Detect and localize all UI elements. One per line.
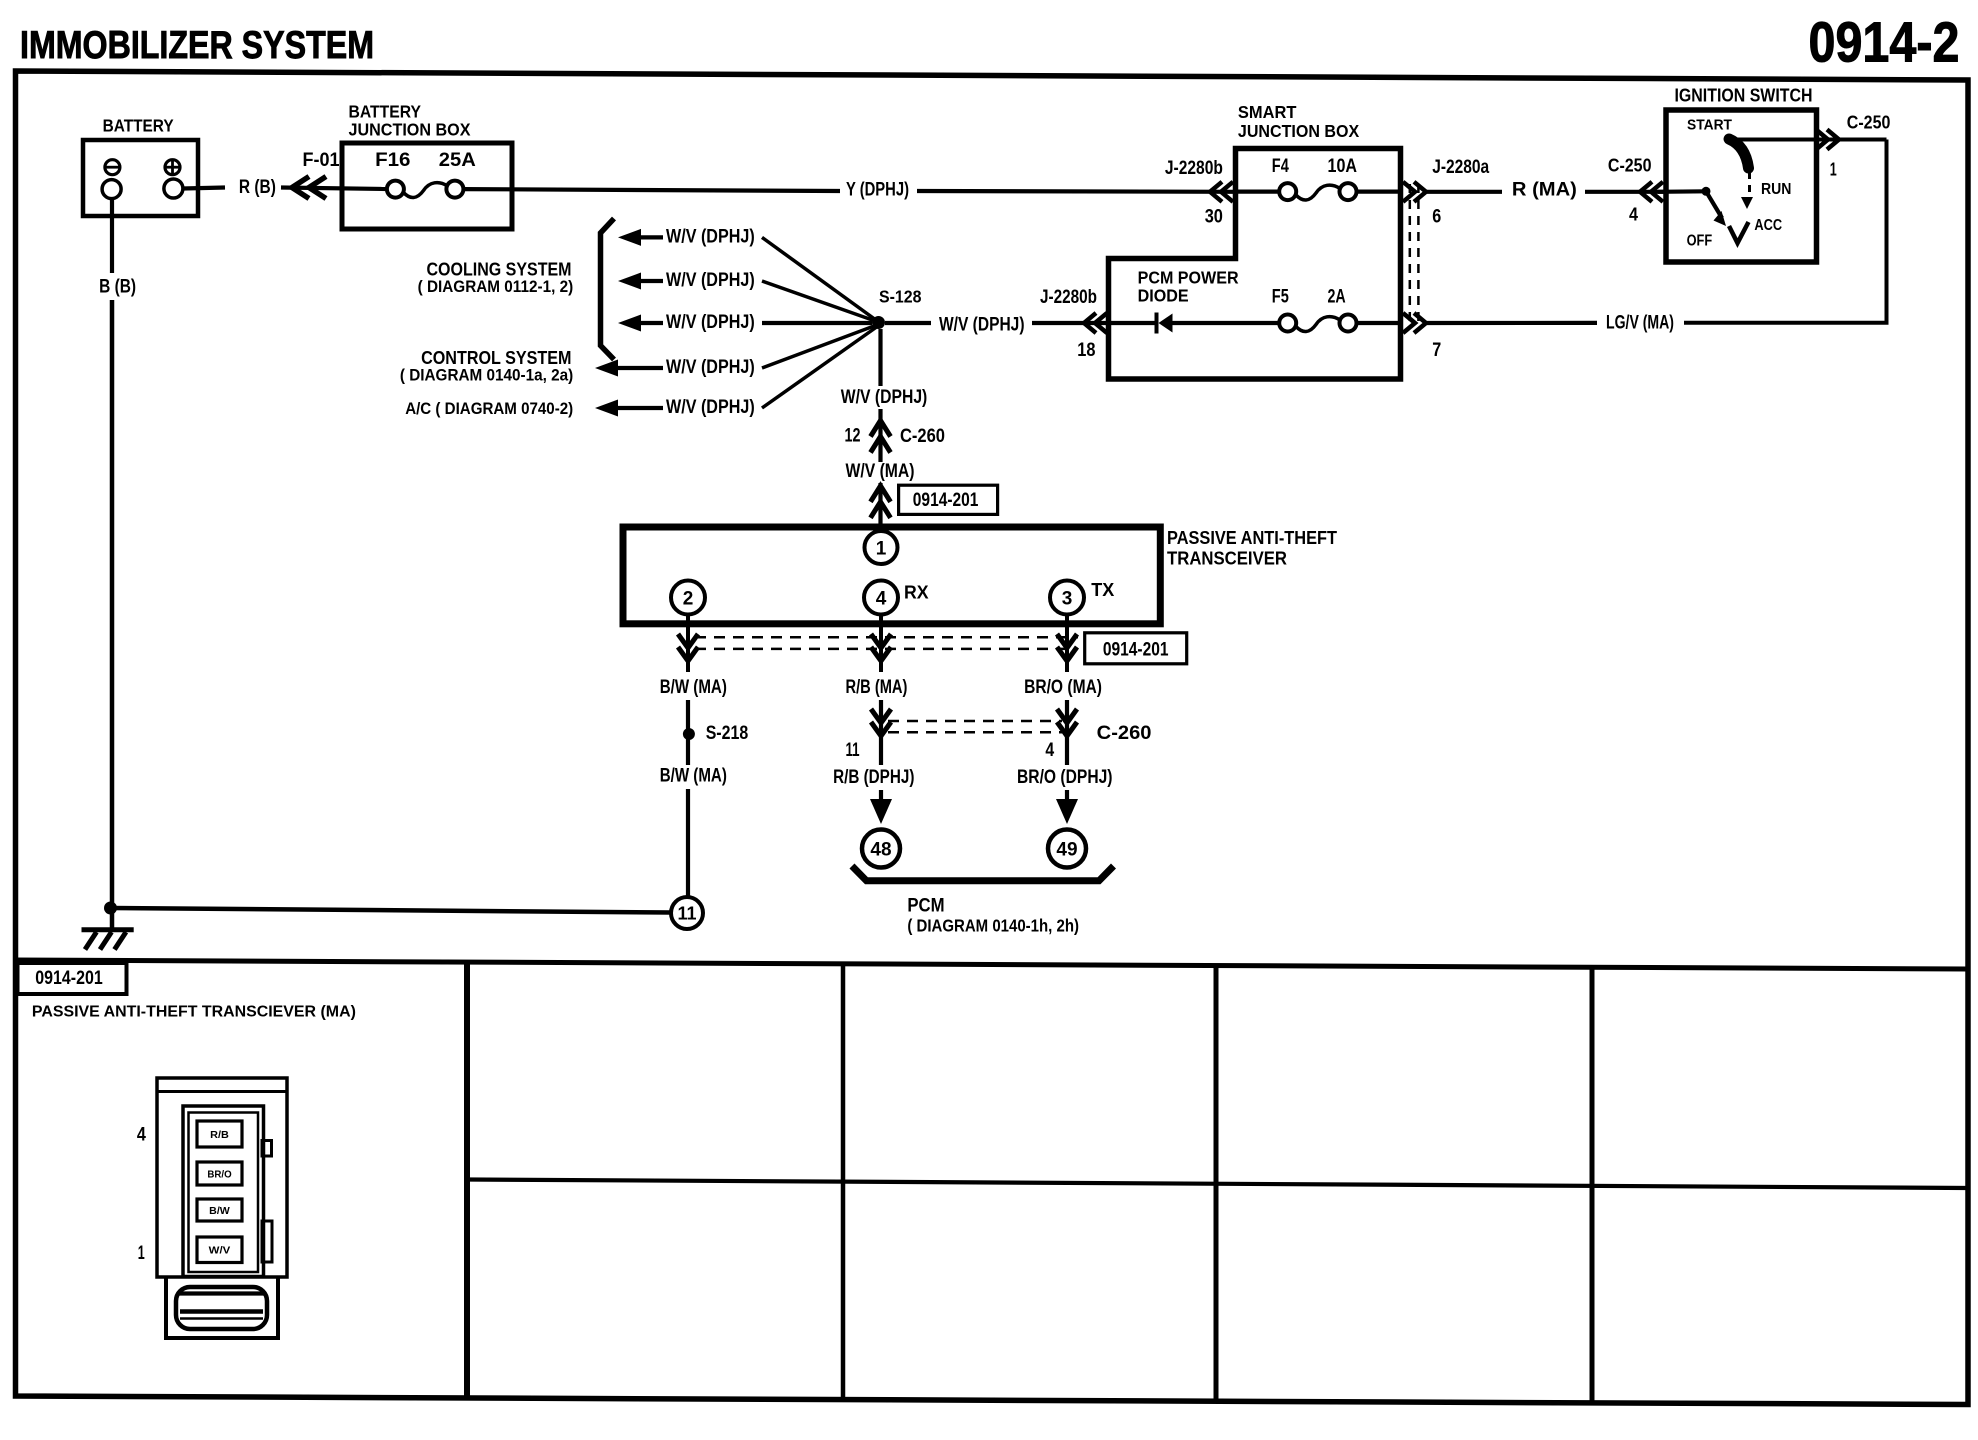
svg-text:4: 4 [1629, 205, 1638, 225]
svg-text:LG/V (MA): LG/V (MA) [1606, 313, 1674, 334]
svg-text:Y (DPHJ): Y (DPHJ) [846, 180, 909, 201]
svg-text:( DIAGRAM 0140-1h, 2h): ( DIAGRAM 0140-1h, 2h) [907, 916, 1079, 936]
svg-text:S-128: S-128 [879, 287, 922, 307]
svg-text:4: 4 [876, 589, 887, 610]
svg-text:R/B: R/B [210, 1129, 229, 1141]
svg-text:BR/O (DPHJ): BR/O (DPHJ) [1017, 767, 1113, 788]
svg-text:R/B (MA): R/B (MA) [846, 677, 908, 698]
svg-text:IGNITION SWITCH: IGNITION SWITCH [1675, 86, 1813, 106]
svg-text:W/V: W/V [209, 1245, 231, 1257]
svg-text:W/V (DPHJ): W/V (DPHJ) [666, 357, 755, 378]
svg-text:W/V (DPHJ): W/V (DPHJ) [666, 397, 755, 418]
svg-text:49: 49 [1056, 840, 1077, 861]
svg-text:TRANSCEIVER: TRANSCEIVER [1167, 549, 1287, 569]
svg-text:BATTERY: BATTERY [349, 102, 422, 122]
svg-text:F16: F16 [375, 150, 410, 171]
svg-text:1: 1 [138, 1243, 145, 1264]
svg-text:48: 48 [870, 840, 891, 861]
svg-text:3: 3 [1062, 589, 1073, 610]
svg-text:0914-2: 0914-2 [1809, 11, 1960, 75]
svg-text:6: 6 [1432, 207, 1441, 228]
svg-text:J-2280b: J-2280b [1040, 287, 1097, 308]
svg-text:RUN: RUN [1761, 181, 1791, 198]
svg-text:1: 1 [876, 539, 887, 560]
svg-text:JUNCTION BOX: JUNCTION BOX [349, 120, 471, 140]
svg-text:BATTERY: BATTERY [103, 116, 174, 136]
svg-text:A/C ( DIAGRAM 0740-2): A/C ( DIAGRAM 0740-2) [405, 399, 573, 418]
svg-text:W/V (DPHJ): W/V (DPHJ) [666, 312, 755, 333]
svg-text:S-218: S-218 [706, 723, 749, 744]
svg-text:R (B): R (B) [239, 177, 276, 198]
svg-text:PASSIVE ANTI-THEFT TRANSCIEVER: PASSIVE ANTI-THEFT TRANSCIEVER (MA) [32, 1004, 356, 1021]
svg-text:12: 12 [845, 426, 861, 447]
svg-text:0914-201: 0914-201 [913, 490, 979, 511]
svg-text:ACC: ACC [1754, 217, 1782, 234]
svg-text:B/W: B/W [209, 1205, 230, 1217]
svg-text:J-2280a: J-2280a [1432, 157, 1489, 178]
svg-text:TX: TX [1091, 579, 1115, 600]
svg-text:SMART: SMART [1238, 102, 1297, 122]
svg-text:PASSIVE ANTI-THEFT: PASSIVE ANTI-THEFT [1167, 528, 1337, 548]
svg-text:1: 1 [1830, 160, 1837, 180]
svg-text:BR/O: BR/O [207, 1169, 231, 1181]
svg-text:11: 11 [677, 904, 696, 924]
svg-text:4: 4 [137, 1125, 146, 1146]
svg-text:R (MA): R (MA) [1512, 180, 1577, 201]
svg-text:W/V (DPHJ): W/V (DPHJ) [666, 270, 755, 291]
svg-text:25A: 25A [439, 150, 476, 171]
svg-text:F-01: F-01 [303, 150, 340, 171]
svg-text:START: START [1687, 118, 1732, 134]
svg-text:0914-201: 0914-201 [35, 968, 103, 989]
svg-text:B (B): B (B) [99, 277, 136, 298]
svg-text:W/V (DPHJ): W/V (DPHJ) [841, 387, 928, 408]
svg-text:W/V (DPHJ): W/V (DPHJ) [666, 226, 755, 247]
svg-text:C-260: C-260 [900, 426, 945, 447]
svg-text:IMMOBILIZER SYSTEM: IMMOBILIZER SYSTEM [20, 24, 374, 67]
svg-text:( DIAGRAM 0140-1a, 2a): ( DIAGRAM 0140-1a, 2a) [400, 366, 573, 385]
svg-text:F5: F5 [1272, 287, 1289, 308]
svg-text:B/W (MA): B/W (MA) [660, 677, 727, 698]
svg-text:10A: 10A [1328, 156, 1358, 177]
svg-text:18: 18 [1077, 340, 1095, 361]
svg-text:J-2280b: J-2280b [1165, 158, 1223, 179]
svg-text:RX: RX [904, 582, 929, 603]
svg-text:4: 4 [1045, 740, 1054, 761]
svg-text:PCM POWER: PCM POWER [1138, 267, 1239, 287]
svg-text:W/V (MA): W/V (MA) [846, 461, 915, 482]
svg-text:0914-201: 0914-201 [1103, 640, 1169, 661]
svg-text:C-250: C-250 [1847, 113, 1891, 133]
svg-text:30: 30 [1205, 207, 1223, 228]
svg-text:JUNCTION BOX: JUNCTION BOX [1238, 121, 1360, 141]
svg-text:( DIAGRAM 0112-1, 2): ( DIAGRAM 0112-1, 2) [418, 277, 574, 296]
svg-text:2: 2 [683, 589, 694, 610]
svg-text:11: 11 [846, 740, 860, 761]
svg-text:DIODE: DIODE [1138, 286, 1189, 306]
svg-text:R/B (DPHJ): R/B (DPHJ) [833, 767, 914, 788]
svg-text:7: 7 [1432, 340, 1441, 361]
svg-text:F4: F4 [1272, 156, 1289, 177]
svg-text:W/V (DPHJ): W/V (DPHJ) [939, 315, 1025, 336]
svg-text:2A: 2A [1328, 287, 1346, 308]
svg-text:C-250: C-250 [1608, 156, 1652, 176]
svg-text:OFF: OFF [1687, 233, 1713, 250]
svg-text:PCM: PCM [907, 896, 944, 917]
svg-text:B/W (MA): B/W (MA) [660, 766, 727, 787]
svg-text:C-260: C-260 [1097, 723, 1152, 744]
svg-text:BR/O (MA): BR/O (MA) [1024, 677, 1102, 698]
